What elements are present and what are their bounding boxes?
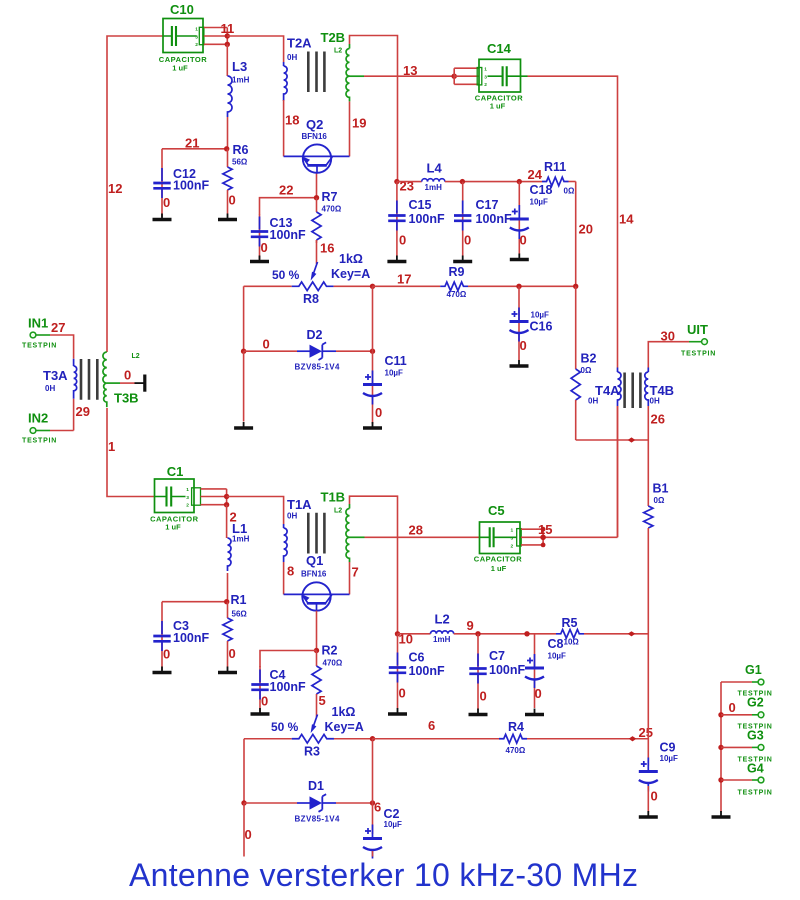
wire R8 junction down to C11	[372, 286, 374, 351]
junction D2 left	[241, 349, 246, 354]
svg-text:10µF: 10µF	[530, 198, 549, 207]
R9 labels	[447, 265, 467, 299]
svg-text:Key=A: Key=A	[331, 267, 370, 281]
svg-text:1mH: 1mH	[232, 535, 250, 544]
svg-text:TESTPIN: TESTPIN	[738, 790, 773, 797]
svg-text:6: 6	[428, 718, 435, 733]
node 21 label	[185, 136, 199, 151]
junction D1 right node 6	[370, 800, 375, 805]
transformer T4B	[645, 368, 648, 407]
transformer T2A primary	[284, 62, 288, 101]
node 13 label	[403, 63, 417, 78]
node 7 label	[352, 565, 359, 580]
svg-text:22: 22	[279, 183, 293, 198]
transformer T2 core	[308, 52, 324, 93]
wire rail17 to D2 left	[243, 286, 245, 351]
svg-text:27: 27	[51, 320, 65, 335]
resistor R9	[440, 282, 468, 291]
node 6 label	[428, 718, 435, 733]
capacitor C9	[639, 758, 658, 818]
svg-text:D1: D1	[308, 779, 324, 793]
R7 labels	[322, 190, 342, 214]
svg-text:10µF: 10µF	[385, 369, 404, 378]
wire T2B top to node 23 feed	[350, 36, 398, 182]
testpin G3	[721, 745, 764, 751]
C10 CAPACITOR label	[159, 55, 207, 72]
junction node 21	[224, 146, 229, 151]
svg-text:470Ω: 470Ω	[447, 290, 467, 299]
node 23 label	[400, 179, 414, 194]
svg-text:IN2: IN2	[28, 411, 48, 426]
zener diode D1	[244, 794, 373, 812]
svg-text:2: 2	[195, 42, 198, 48]
wire C10 pin stubs node 11	[204, 28, 227, 45]
capacitor C13	[250, 214, 269, 262]
C16 labels	[520, 311, 553, 354]
svg-text:100nF: 100nF	[270, 680, 306, 694]
capacitor C3	[153, 602, 172, 673]
node 17 label	[397, 272, 411, 287]
capacitor C11	[363, 351, 382, 428]
C7 labels	[480, 649, 526, 704]
capacitor C6	[388, 634, 407, 714]
svg-text:R9: R9	[449, 265, 465, 279]
wire C1 pin stubs node 2	[201, 489, 227, 505]
svg-text:Key=A: Key=A	[325, 720, 364, 734]
G2 labels	[729, 696, 773, 731]
T1A labels	[287, 497, 312, 521]
C1 ref label	[167, 464, 184, 479]
C18 labels	[520, 183, 553, 248]
T2B labels	[321, 30, 346, 55]
transformer T4A	[618, 368, 622, 538]
resistor R6	[218, 149, 237, 220]
svg-text:0: 0	[229, 646, 236, 661]
svg-text:T2B: T2B	[321, 30, 346, 45]
svg-text:0: 0	[535, 686, 542, 701]
C1 CAPACITOR label	[150, 515, 198, 532]
zener diode D2	[244, 342, 373, 360]
svg-text:C1: C1	[167, 464, 184, 479]
testpin G4	[721, 777, 764, 783]
resistor B2	[571, 286, 580, 440]
junction node 11 dots	[225, 33, 230, 47]
svg-text:R7: R7	[322, 190, 338, 204]
D1 left 0 label	[245, 827, 252, 842]
svg-text:C16: C16	[530, 320, 553, 334]
R3 labels	[271, 705, 364, 759]
svg-text:0: 0	[261, 694, 268, 709]
R11 labels	[544, 160, 575, 196]
svg-text:1: 1	[186, 487, 189, 493]
svg-text:0: 0	[261, 240, 268, 255]
wire node 7	[349, 562, 351, 594]
junction node 2 dots	[224, 494, 229, 508]
svg-text:C8: C8	[548, 637, 564, 651]
transformer T4 core	[625, 373, 641, 409]
svg-text:56Ω: 56Ω	[232, 158, 248, 167]
svg-text:0Ω: 0Ω	[564, 187, 575, 196]
svg-text:7: 7	[352, 565, 359, 580]
svg-text:9: 9	[467, 618, 474, 633]
wire R3 junction down to C2	[372, 739, 374, 803]
svg-text:C15: C15	[409, 198, 432, 212]
svg-text:12: 12	[108, 181, 122, 196]
capacitor C8	[525, 634, 544, 715]
svg-text:19: 19	[352, 116, 366, 131]
T4B labels	[650, 383, 675, 406]
wire top rail node 11 to T2A	[227, 36, 283, 62]
svg-text:G4: G4	[747, 762, 764, 776]
svg-text:3: 3	[484, 75, 487, 81]
svg-text:30: 30	[661, 329, 675, 344]
junction node 13 at C14	[452, 74, 457, 79]
wire node 26	[647, 406, 649, 506]
resistor R2	[312, 651, 321, 718]
D2 left node 0 label	[263, 337, 270, 352]
svg-text:BZV85-1V4: BZV85-1V4	[295, 363, 341, 372]
capacitor C16	[510, 286, 529, 366]
svg-text:100nF: 100nF	[409, 664, 445, 678]
G1 labels	[738, 663, 773, 698]
B1 labels	[653, 482, 669, 506]
capacitor C4	[251, 666, 270, 714]
svg-text:L4: L4	[427, 161, 443, 176]
svg-text:C14: C14	[487, 41, 512, 56]
svg-text:8: 8	[287, 564, 294, 579]
C13 labels	[261, 216, 306, 255]
svg-text:5: 5	[319, 693, 326, 708]
svg-text:1: 1	[484, 67, 487, 73]
wire C14 pin bracket	[454, 68, 479, 84]
transformer T1B secondary	[346, 504, 365, 562]
svg-text:R3: R3	[304, 745, 320, 759]
svg-text:BFN16: BFN16	[301, 570, 327, 579]
svg-text:1mH: 1mH	[425, 183, 443, 192]
inductor L2	[398, 631, 557, 634]
svg-text:R5: R5	[562, 616, 578, 630]
svg-text:10µF: 10µF	[384, 820, 403, 829]
subcircuit capacitor C5	[480, 522, 522, 554]
testpin IN1	[30, 332, 74, 359]
R4 labels	[506, 720, 526, 755]
wire node 6 rail right to node 25	[527, 738, 648, 740]
svg-text:10µF: 10µF	[548, 652, 567, 661]
wire rail node 2 to T1A	[227, 497, 284, 525]
svg-text:0: 0	[399, 686, 406, 701]
node 2 label	[230, 510, 237, 525]
svg-text:L3: L3	[232, 59, 247, 74]
node 10 label	[399, 632, 413, 647]
resistor R5	[556, 630, 584, 639]
svg-text:17: 17	[397, 272, 411, 287]
wire node 3 rail	[162, 601, 227, 603]
svg-text:50 %: 50 %	[271, 720, 299, 734]
wire node 18	[283, 100, 285, 156]
node 11 label	[221, 21, 235, 36]
T4A labels	[588, 383, 620, 406]
svg-text:13: 13	[403, 63, 417, 78]
svg-text:0H: 0H	[45, 384, 55, 393]
B2 labels	[581, 352, 597, 376]
svg-text:G3: G3	[747, 729, 764, 743]
junction diamond at B1 bottom	[628, 631, 636, 636]
C2 labels	[384, 807, 403, 829]
node 28 label	[409, 523, 423, 538]
R5 labels	[562, 616, 580, 647]
svg-text:C18: C18	[530, 183, 553, 197]
svg-text:D2: D2	[307, 328, 323, 342]
node 9 label	[467, 618, 474, 633]
R2 labels	[319, 644, 343, 709]
svg-text:Q2: Q2	[306, 117, 323, 132]
svg-text:B1: B1	[653, 482, 669, 496]
svg-text:6: 6	[374, 800, 381, 815]
svg-text:1mH: 1mH	[232, 76, 250, 85]
junction node 3	[224, 599, 229, 604]
svg-text:50 %: 50 %	[272, 268, 300, 282]
C4 labels	[261, 668, 306, 709]
wire D1 left leg	[243, 739, 245, 803]
junction D2 right	[370, 349, 375, 354]
svg-text:3: 3	[195, 34, 198, 40]
svg-text:100nF: 100nF	[409, 212, 445, 226]
svg-text:15: 15	[538, 522, 552, 537]
svg-text:G2: G2	[747, 696, 764, 710]
transistor Q2	[303, 144, 333, 172]
svg-text:T3B: T3B	[114, 391, 139, 406]
svg-text:C7: C7	[489, 649, 505, 663]
svg-text:0: 0	[163, 647, 170, 662]
T3B tap terminal	[135, 375, 145, 392]
svg-text:1 uF: 1 uF	[165, 523, 181, 532]
wire node 17 rail right	[468, 285, 576, 287]
transistor Q1 leads	[284, 593, 350, 595]
C12 labels	[163, 167, 209, 210]
T3A labels	[43, 368, 68, 393]
Q2 labels	[302, 117, 328, 141]
resistor R1	[218, 602, 237, 673]
svg-text:0Ω: 0Ω	[581, 366, 592, 375]
T1B labels	[321, 490, 346, 515]
svg-text:UIT: UIT	[687, 322, 708, 337]
subcircuit capacitor C1	[155, 479, 201, 513]
svg-text:R4: R4	[508, 720, 524, 734]
title text	[129, 857, 638, 893]
wire node 4 rail	[260, 651, 317, 668]
UIT labels	[661, 322, 717, 358]
svg-text:0: 0	[163, 195, 170, 210]
junction R8 right	[370, 284, 375, 289]
wire B2 bottom rail	[576, 439, 649, 441]
node 12 label	[108, 181, 122, 196]
svg-text:100nF: 100nF	[489, 663, 525, 677]
svg-text:R6: R6	[233, 143, 249, 157]
svg-text:R8: R8	[303, 292, 319, 306]
svg-text:R2: R2	[322, 644, 338, 658]
svg-text:CAPACITOR: CAPACITOR	[474, 554, 522, 563]
L3 labels	[232, 59, 250, 85]
svg-text:C5: C5	[488, 503, 505, 518]
svg-text:2: 2	[511, 543, 514, 549]
Q1 labels	[301, 553, 327, 579]
wire node 17 rail left	[244, 285, 292, 287]
svg-text:2: 2	[186, 503, 189, 509]
node 6 label at D1	[374, 800, 381, 815]
svg-text:26: 26	[651, 412, 665, 427]
R6 labels	[229, 143, 249, 208]
svg-text:24: 24	[528, 167, 543, 182]
junction node 15 dots	[540, 527, 546, 548]
testpin G2	[721, 712, 764, 718]
wire node 30 to UIT	[648, 342, 701, 368]
svg-text:11: 11	[221, 21, 235, 36]
wire T4A bottom feed	[617, 406, 619, 537]
svg-text:16: 16	[320, 241, 334, 256]
T3B tap 0 label	[124, 368, 131, 383]
junction node 10	[395, 631, 400, 636]
wire node 13 rail	[364, 75, 455, 77]
svg-text:T4A: T4A	[595, 383, 620, 398]
svg-text:0: 0	[263, 337, 270, 352]
transformer T3A primary	[74, 359, 77, 399]
svg-text:1: 1	[195, 26, 198, 32]
C17 labels	[464, 198, 512, 248]
node 19 label	[352, 116, 366, 131]
junction C16 node	[516, 284, 521, 289]
svg-text:R11: R11	[544, 160, 566, 174]
G3 labels	[738, 729, 773, 764]
svg-text:470Ω: 470Ω	[323, 659, 343, 668]
svg-text:100nF: 100nF	[476, 212, 512, 226]
wire node 21 rail	[162, 148, 227, 150]
svg-text:21: 21	[185, 136, 199, 151]
junction diamond node 25	[629, 736, 637, 741]
testpin IN2	[30, 428, 74, 434]
junction C17 node	[460, 179, 465, 184]
svg-text:100nF: 100nF	[173, 178, 209, 192]
svg-text:L2: L2	[435, 612, 450, 627]
svg-text:TESTPIN: TESTPIN	[22, 438, 57, 445]
node 24 label	[528, 167, 543, 182]
wire node 17 rail mid	[373, 285, 441, 287]
svg-text:1kΩ: 1kΩ	[332, 705, 356, 719]
svg-text:C17: C17	[476, 198, 499, 212]
svg-text:L2: L2	[334, 508, 342, 515]
testpin G1	[721, 679, 764, 685]
wire node 8	[283, 562, 285, 594]
resistor R7	[312, 198, 321, 243]
node 8 label	[287, 564, 294, 579]
junction node 20 bottom	[573, 284, 578, 289]
junction node 24	[517, 179, 522, 184]
svg-text:B2: B2	[581, 352, 597, 366]
svg-text:C6: C6	[409, 651, 425, 665]
node 25 label	[639, 725, 653, 740]
svg-text:TESTPIN: TESTPIN	[22, 343, 57, 350]
junction D1 left	[241, 800, 246, 805]
svg-text:1 uF: 1 uF	[490, 102, 506, 111]
C11 labels	[375, 354, 407, 420]
potentiometer R3 wiper arrow	[311, 715, 318, 734]
junction node 4	[314, 648, 319, 653]
wire Q2 base node 22	[316, 173, 318, 198]
svg-text:0: 0	[375, 405, 382, 420]
capacitor C15	[387, 182, 406, 262]
svg-text:1 uF: 1 uF	[172, 63, 188, 72]
capacitor C7	[469, 634, 488, 715]
wire node 20	[575, 182, 577, 287]
wire node 19	[349, 102, 351, 157]
junction C8 node	[524, 631, 529, 636]
svg-text:0H: 0H	[287, 512, 297, 521]
svg-text:0: 0	[229, 193, 236, 208]
resistor R11	[542, 177, 576, 186]
svg-text:1: 1	[511, 528, 514, 534]
junction node 9	[475, 631, 480, 636]
junction R3 right	[370, 736, 375, 741]
svg-text:BZV85-1V4: BZV85-1V4	[295, 815, 341, 824]
svg-text:0: 0	[464, 233, 471, 248]
C14 ref label	[487, 41, 512, 56]
node 20 label	[579, 222, 593, 237]
svg-text:100nF: 100nF	[173, 631, 209, 645]
svg-text:0: 0	[124, 368, 131, 383]
G4 labels	[738, 762, 773, 797]
svg-text:0: 0	[651, 789, 658, 804]
junction G4	[718, 777, 723, 782]
svg-text:470Ω: 470Ω	[322, 205, 342, 214]
inductor L3	[227, 44, 232, 149]
wire D1 left leg bottom	[243, 803, 245, 857]
C6 labels	[399, 651, 445, 701]
transformer T3 core	[81, 359, 97, 400]
junction diamond near node 26	[628, 437, 636, 442]
svg-text:BFN16: BFN16	[302, 132, 328, 141]
svg-text:G1: G1	[745, 663, 762, 677]
capacitor C12	[153, 149, 172, 220]
transformer T1A primary	[284, 524, 288, 562]
svg-text:0: 0	[399, 233, 406, 248]
node 18 label	[285, 113, 299, 128]
svg-text:1kΩ: 1kΩ	[339, 252, 363, 266]
wire node 6 rail left	[244, 738, 292, 740]
C9 labels	[651, 741, 679, 804]
inductor L1	[227, 505, 231, 602]
C3 labels	[163, 619, 209, 662]
svg-text:1mH: 1mH	[433, 635, 451, 644]
C10 ref label	[170, 2, 194, 17]
svg-text:IN1: IN1	[28, 316, 48, 331]
svg-text:18: 18	[285, 113, 299, 128]
svg-text:3: 3	[511, 536, 514, 542]
wire T1B top to node 10 feed	[350, 496, 398, 634]
svg-text:56Ω: 56Ω	[232, 610, 248, 619]
node 14 label	[619, 212, 634, 227]
potentiometer R3	[292, 734, 373, 743]
inductor L4	[397, 179, 542, 182]
svg-text:0: 0	[480, 689, 487, 704]
capacitor C2	[363, 803, 382, 859]
C15 labels	[399, 198, 445, 248]
D1 labels	[295, 779, 341, 824]
node 1 label	[108, 439, 115, 454]
resistor R4	[499, 734, 527, 743]
subcircuit capacitor C14	[477, 59, 527, 92]
R8 wiper arrow	[311, 240, 318, 281]
wire T3B tap node 0	[120, 382, 135, 384]
R1 labels	[229, 593, 248, 661]
